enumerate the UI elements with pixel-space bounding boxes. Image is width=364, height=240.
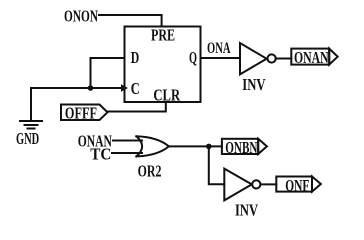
wire D input [91, 58, 125, 88]
wire to ground [30, 88, 32, 121]
junction dot (OR2 output) [206, 144, 212, 150]
svg-text:OR2: OR2 [138, 161, 162, 180]
svg-text:INV: INV [242, 75, 266, 94]
inverter U2 triangle [240, 43, 267, 74]
svg-text:PRE: PRE [151, 26, 175, 45]
svg-text:ONF: ONF [285, 176, 309, 195]
port ONBN arrow tip [258, 139, 267, 154]
wire ONAN to OR2 [113, 140, 142, 142]
svg-text:CLR: CLR [153, 86, 180, 105]
svg-text:Q: Q [189, 48, 197, 67]
wire ONON to PRE pin [99, 15, 162, 27]
wire Q to inverter U2 [201, 57, 241, 59]
svg-text:GND: GND [16, 129, 39, 148]
clock input arrow [121, 84, 128, 92]
junction dot [88, 85, 94, 91]
wire bubble to ONAN port [276, 58, 292, 60]
flip-flop U1 body [125, 27, 201, 103]
port OFFF [61, 105, 108, 121]
svg-text:ONBN: ONBN [225, 138, 258, 157]
wire C input [31, 87, 124, 89]
svg-text:ONON: ONON [64, 7, 98, 26]
svg-text:D: D [131, 48, 140, 67]
svg-text:TC: TC [90, 145, 111, 164]
port ONAN [291, 49, 329, 65]
inverter U3 triangle [224, 169, 252, 201]
svg-text:ONAN: ONAN [294, 48, 329, 67]
wire OR2 output [169, 145, 222, 147]
ground [20, 121, 42, 129]
inverter U3 bubble [252, 180, 260, 188]
wire bubble to ONF port [260, 183, 276, 185]
inverter U2 bubble [268, 54, 276, 62]
port ONBN [222, 139, 258, 154]
port ONF [276, 177, 312, 192]
port ONF arrow tip [312, 177, 321, 192]
svg-text:ONA: ONA [207, 40, 231, 57]
svg-text:INV: INV [235, 200, 259, 219]
wire OFFF to CLR pin [108, 102, 166, 112]
port ONAN arrow tip [329, 49, 338, 65]
or-gate OR2 [136, 136, 169, 156]
svg-text:C: C [131, 79, 140, 98]
wire TC to OR2 [112, 152, 142, 154]
svg-text:OFFF: OFFF [65, 104, 97, 123]
wire junction to inverter U3 [209, 146, 225, 184]
